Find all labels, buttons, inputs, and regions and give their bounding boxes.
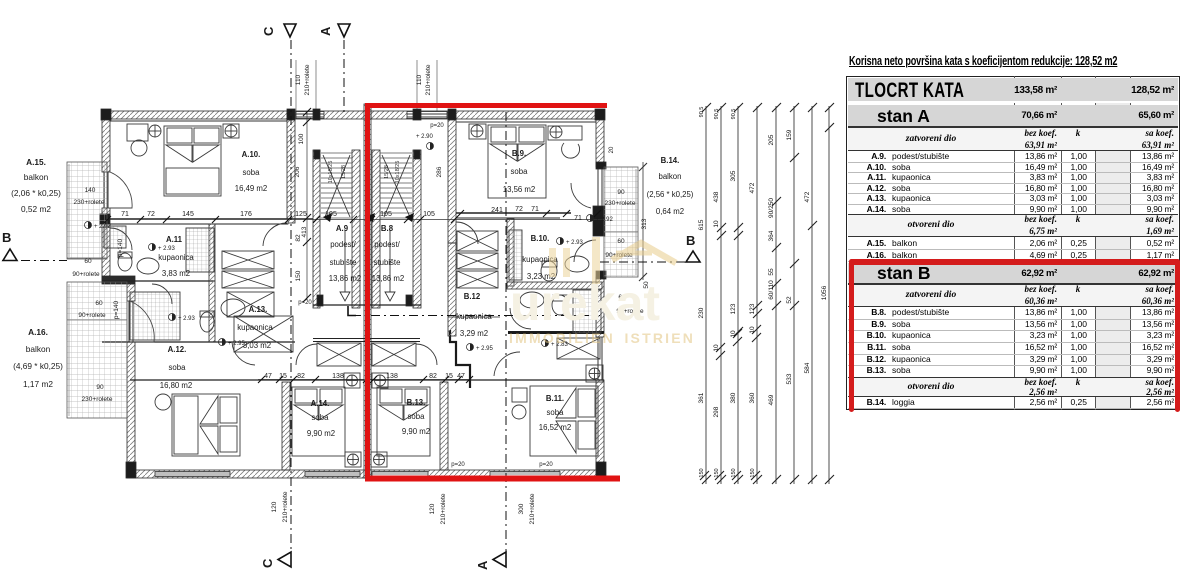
wardrobes A corridor stack bbox=[222, 251, 274, 317]
svg-text:(2,06 * k0,25): (2,06 * k0,25) bbox=[11, 188, 61, 198]
wall: stair A.9 right wall at party bbox=[352, 150, 360, 308]
dim line 8 bbox=[828, 106, 830, 484]
bottom wall window segments bbox=[155, 472, 560, 477]
room label A.14 bbox=[307, 399, 335, 438]
svg-text:71: 71 bbox=[531, 206, 539, 213]
door arc A.11 bbox=[110, 228, 132, 250]
svg-text:16,80 m2: 16,80 m2 bbox=[160, 381, 193, 390]
table header row otvoreni dio bbox=[848, 214, 1178, 237]
svg-text:71: 71 bbox=[574, 215, 582, 222]
room label A.9 bbox=[329, 224, 362, 283]
svg-text:A.10.: A.10. bbox=[242, 150, 261, 159]
svg-text:90: 90 bbox=[96, 384, 104, 391]
table row A.14. soba bbox=[848, 214, 1178, 215]
svg-text:13,86 m2: 13,86 m2 bbox=[372, 274, 405, 283]
stairs arrowheads bbox=[323, 213, 414, 222]
svg-text:B: B bbox=[686, 233, 695, 248]
svg-text:stubište: stubište bbox=[330, 258, 357, 267]
section marker A top bbox=[318, 24, 350, 37]
sink A.13 bbox=[221, 299, 245, 317]
lamp symbol B.9 left bbox=[471, 125, 483, 137]
sink B.12 bbox=[520, 292, 544, 308]
svg-text:110: 110 bbox=[416, 74, 423, 85]
svg-text:A: A bbox=[318, 26, 333, 36]
svg-text:82: 82 bbox=[297, 373, 305, 380]
wall: stair B.8 left wall at party bbox=[372, 150, 380, 308]
tile floor A.11 bbox=[104, 226, 126, 248]
svg-text:(4,69 * k0,25): (4,69 * k0,25) bbox=[13, 361, 63, 371]
corridor dim chain line bbox=[306, 112, 308, 300]
svg-text:90,5: 90,5 bbox=[714, 109, 720, 120]
dim numbers column (rotated) bbox=[698, 107, 828, 478]
wall: left exterior lower (A.12) bbox=[127, 284, 135, 301]
nightstand columns at bottom wall bbox=[345, 452, 361, 467]
svg-text:9,90 m2: 9,90 m2 bbox=[307, 429, 335, 438]
lamp A.10 left bbox=[131, 140, 147, 156]
red highlight box table stan B top bar bbox=[849, 259, 1180, 265]
wall: A.14 left wall bbox=[282, 382, 290, 470]
wall: right exterior lower bbox=[596, 277, 604, 337]
svg-text:soba: soba bbox=[243, 168, 261, 177]
wall: right exterior upper bbox=[596, 111, 604, 167]
table row B.13. soba bbox=[848, 377, 1178, 378]
wall: top exterior A side bbox=[102, 111, 293, 119]
svg-text:361: 361 bbox=[698, 392, 705, 403]
svg-text:+ 2.93: + 2.93 bbox=[158, 246, 176, 252]
svg-text:3,83 m2: 3,83 m2 bbox=[162, 269, 190, 278]
table row A.9. podest/stubište bbox=[848, 162, 1178, 163]
rotated dims stair numbers bbox=[328, 161, 401, 184]
wardrobes B corridor stack bbox=[457, 231, 498, 288]
svg-text:B.8: B.8 bbox=[381, 224, 394, 233]
svg-text:soba: soba bbox=[312, 413, 330, 422]
wall: B.10 left wall bbox=[507, 219, 514, 286]
red highlight box table stan B left bar bbox=[849, 259, 854, 412]
room label A.16 bbox=[13, 327, 63, 389]
table row A.10. soba bbox=[848, 172, 1178, 173]
wall: hall bottom wall A side bbox=[130, 379, 364, 381]
door arc B.12 bbox=[510, 308, 531, 329]
room label A.12 bbox=[160, 345, 193, 390]
nightstand B.9 right bbox=[548, 126, 582, 140]
lamp symbol A.10 bbox=[149, 125, 161, 137]
section line B left bbox=[2, 260, 67, 262]
svg-text:16,49 m2: 16,49 m2 bbox=[235, 184, 268, 193]
svg-text:+ 2.95: + 2.95 bbox=[228, 341, 246, 347]
svg-text:123: 123 bbox=[749, 303, 756, 314]
room label A.10 bbox=[235, 150, 268, 193]
dim line 1 bbox=[705, 106, 707, 484]
svg-text:urekat: urekat bbox=[510, 275, 660, 331]
rotated dims bottom window pairs bbox=[271, 491, 536, 524]
shower A.13 bbox=[130, 292, 180, 340]
wall: stairwell right wall bbox=[413, 150, 421, 308]
nightstand B.11 top right bbox=[586, 365, 603, 382]
svg-text:10: 10 bbox=[713, 344, 720, 352]
svg-text:150: 150 bbox=[714, 468, 720, 477]
svg-text:47: 47 bbox=[264, 373, 272, 380]
room label B.13 bbox=[402, 398, 430, 436]
lamp symbol B.9 right bbox=[550, 126, 562, 138]
table row stan A bbox=[848, 105, 1178, 127]
door arc A.12 entry bbox=[232, 342, 255, 365]
svg-text:p=140: p=140 bbox=[113, 300, 120, 319]
svg-text:210+rolete: 210+rolete bbox=[440, 493, 447, 524]
door arc corridor to B.10 bbox=[456, 222, 478, 244]
section line B middle jog bbox=[352, 315, 600, 317]
red plan left line bbox=[365, 104, 370, 481]
svg-text:+ 2.92: + 2.92 bbox=[94, 224, 112, 230]
svg-text:469: 469 bbox=[768, 394, 775, 405]
svg-text:balkon: balkon bbox=[24, 172, 49, 182]
sink A.11 bbox=[137, 258, 159, 274]
table header row otvoreni dio bbox=[848, 377, 1178, 397]
room label A.13 bbox=[237, 305, 273, 350]
svg-text:210+rolete: 210+rolete bbox=[282, 491, 289, 522]
svg-text:230+rolete: 230+rolete bbox=[605, 200, 636, 207]
svg-text:206: 206 bbox=[294, 166, 301, 177]
wall: top exterior stairwell bbox=[293, 111, 371, 119]
dim ticks middle bbox=[716, 123, 834, 360]
wardrobe hall B.11 bbox=[557, 338, 600, 359]
dimension ticks bottom rooms bbox=[258, 376, 473, 383]
svg-text:podest/: podest/ bbox=[330, 240, 356, 249]
svg-text:120: 120 bbox=[271, 501, 278, 512]
svg-text:(2,56 * k0,25): (2,56 * k0,25) bbox=[647, 190, 694, 199]
wardrobe hall B side bbox=[372, 343, 416, 366]
toilet B.10 bbox=[541, 261, 557, 281]
svg-text:10: 10 bbox=[730, 330, 737, 338]
svg-text:B.10.: B.10. bbox=[531, 234, 550, 243]
table column lines bbox=[1014, 76, 1015, 410]
table row A.13. kupaonica bbox=[848, 204, 1178, 205]
red plan top line bbox=[365, 103, 607, 108]
table row B.12. kupaonica bbox=[848, 365, 1178, 366]
svg-text:15/28: 15/28 bbox=[384, 165, 390, 179]
red highlight box table stan B right bar bbox=[1175, 259, 1180, 412]
door arc B.13 entry bbox=[416, 344, 437, 365]
wardrobe A.12 bbox=[234, 316, 293, 352]
svg-text:472: 472 bbox=[804, 191, 811, 202]
svg-text:15/28: 15/28 bbox=[341, 165, 347, 179]
column symbol B hall bbox=[372, 373, 388, 388]
svg-text:kupaonica: kupaonica bbox=[456, 312, 492, 321]
svg-text:90,5: 90,5 bbox=[699, 107, 705, 118]
wall: A.12 balcony door window bbox=[129, 301, 133, 342]
door arc A.10 balcony bbox=[110, 172, 132, 208]
bed A.12 bbox=[172, 394, 240, 456]
wall: balcony door window A.10 bbox=[104, 172, 108, 208]
wall: A.11/A.13 right wall bbox=[209, 224, 215, 342]
wall: top exterior B side bbox=[371, 111, 604, 119]
dimension row bottom rooms bbox=[264, 373, 465, 380]
svg-text:230+rolete: 230+rolete bbox=[74, 199, 105, 206]
red overlay on plan bbox=[365, 104, 620, 481]
toilet B.12 bbox=[552, 295, 568, 315]
wall: B.13 right wall bbox=[440, 382, 448, 470]
wall: B corridor stepped wall bbox=[450, 330, 470, 388]
svg-text:C: C bbox=[261, 26, 276, 36]
room label A.11 bbox=[158, 235, 194, 278]
svg-text:145: 145 bbox=[182, 211, 194, 218]
nightstand B.9 left bbox=[469, 124, 486, 139]
red plan bottom line bbox=[365, 476, 620, 482]
svg-text:soba: soba bbox=[511, 167, 529, 176]
svg-text:305: 305 bbox=[730, 170, 737, 181]
lamp symbol A.10 right bbox=[225, 125, 237, 137]
svg-text:60/110: 60/110 bbox=[768, 280, 775, 300]
svg-text:balkon: balkon bbox=[659, 172, 682, 181]
bed A.14 bbox=[292, 387, 345, 456]
tile floor B.10 bbox=[509, 230, 522, 280]
wall: B.10 bottom wall bbox=[507, 282, 602, 289]
wall: left exterior upper (A.10) bbox=[102, 111, 110, 172]
svg-text:soba: soba bbox=[169, 363, 187, 372]
svg-text:615: 615 bbox=[698, 219, 705, 230]
svg-text:313: 313 bbox=[641, 218, 648, 229]
svg-text:176: 176 bbox=[240, 211, 252, 218]
svg-text:0,52 m2: 0,52 m2 bbox=[21, 204, 51, 214]
svg-text:A.9: A.9 bbox=[336, 224, 349, 233]
svg-text:150: 150 bbox=[731, 468, 737, 477]
table row B.9. soba bbox=[848, 330, 1178, 331]
svg-text:+ 2.90: + 2.90 bbox=[416, 134, 434, 140]
table header row zatvoreni dio bbox=[848, 284, 1178, 307]
bed B.9 bbox=[488, 125, 546, 198]
svg-text:10: 10 bbox=[713, 220, 720, 228]
svg-text:16,52 m2: 16,52 m2 bbox=[539, 423, 572, 432]
section line A top segment bbox=[343, 40, 345, 112]
room label B.14 bbox=[647, 156, 694, 216]
rotated dims left shaft bbox=[113, 133, 650, 319]
wardrobe hall A side bbox=[317, 343, 361, 366]
nightstand A.10 right bbox=[223, 124, 239, 138]
svg-text:472: 472 bbox=[749, 182, 756, 193]
dim line 5 bbox=[775, 106, 777, 484]
dim line 6 bbox=[793, 106, 795, 484]
section marker C top bbox=[261, 24, 296, 37]
bed A.10 bbox=[164, 126, 221, 196]
wall: B.12 bottom wall bbox=[508, 331, 604, 334]
table row B.10. kupaonica bbox=[848, 342, 1178, 343]
table row A.11. kupaonica bbox=[848, 183, 1178, 184]
section line B right bbox=[600, 261, 692, 263]
svg-text:105: 105 bbox=[380, 211, 392, 218]
svg-text:90,5: 90,5 bbox=[731, 109, 737, 120]
labels in balcony A.16 bbox=[78, 300, 112, 403]
svg-text:100: 100 bbox=[298, 133, 305, 144]
rotated dims top window pairs bbox=[295, 64, 432, 95]
inner face lines of top wall bbox=[110, 120, 287, 122]
door arc A.12 balcony bbox=[130, 301, 154, 342]
svg-text:3,29 m2: 3,29 m2 bbox=[460, 329, 488, 338]
toilet A.13 bbox=[200, 311, 214, 332]
stairs B.8 flight treads bbox=[380, 153, 412, 218]
wall: corner blocks black bbox=[101, 109, 111, 120]
dimension column bbox=[698, 103, 834, 484]
svg-text:105: 105 bbox=[423, 211, 435, 218]
svg-text:1,17 m2: 1,17 m2 bbox=[23, 379, 53, 389]
svg-text:10x18/25: 10x18/25 bbox=[395, 161, 401, 184]
svg-text:3,03 m2: 3,03 m2 bbox=[243, 341, 271, 350]
balcony B.14 bbox=[604, 167, 638, 277]
dimension ticks row A bbox=[104, 210, 601, 223]
table row B.8. podest/stubište bbox=[848, 319, 1178, 320]
svg-text:72: 72 bbox=[147, 211, 155, 218]
section marker B right bbox=[686, 233, 700, 262]
wire: section line C vertical dash-dot bbox=[0, 0, 1, 1]
svg-text:+ 2.95: + 2.95 bbox=[476, 346, 494, 352]
stairs A.9 direction lines bbox=[323, 155, 350, 217]
svg-text:364: 364 bbox=[768, 230, 775, 241]
svg-text:kupaonica: kupaonica bbox=[237, 323, 273, 332]
section line A main bbox=[505, 112, 507, 565]
beam above hall wardrobes bbox=[313, 339, 420, 342]
svg-text:soba: soba bbox=[408, 412, 426, 421]
wall: A.10 right wall bbox=[287, 111, 295, 223]
svg-text:150: 150 bbox=[750, 468, 756, 477]
svg-text:B.14.: B.14. bbox=[661, 156, 680, 165]
svg-text:p=20: p=20 bbox=[451, 462, 465, 468]
wall: step joining left walls at y283 bbox=[102, 276, 135, 284]
svg-text:82: 82 bbox=[295, 234, 302, 242]
door arc B.9 entry bbox=[571, 183, 591, 208]
svg-text:60: 60 bbox=[84, 258, 92, 265]
svg-text:105: 105 bbox=[325, 211, 337, 218]
svg-text:60: 60 bbox=[95, 300, 103, 307]
wall: hall bottom wall B side bbox=[371, 379, 604, 381]
svg-text:230: 230 bbox=[698, 307, 705, 318]
wall: right window B.11 bbox=[598, 337, 602, 380]
table row A.12. soba bbox=[848, 193, 1178, 194]
wall: left exterior A.10 lower segment bbox=[102, 208, 110, 283]
door arc B.11 entry bbox=[494, 352, 520, 376]
dim ticks top bbox=[702, 103, 834, 112]
room label B.12 bbox=[456, 292, 492, 338]
svg-text:+ 2.93: + 2.93 bbox=[566, 240, 584, 246]
svg-text:A.13.: A.13. bbox=[249, 305, 268, 314]
svg-text:B.13.: B.13. bbox=[407, 398, 426, 407]
svg-text:205: 205 bbox=[768, 134, 775, 145]
svg-text:150: 150 bbox=[295, 270, 302, 281]
svg-text:150: 150 bbox=[699, 468, 705, 477]
p=20 labels bbox=[298, 123, 553, 468]
svg-text:52: 52 bbox=[786, 296, 793, 304]
svg-text:90/250: 90/250 bbox=[768, 198, 775, 218]
svg-text:B.12: B.12 bbox=[464, 292, 481, 301]
table row A.16. balkon bbox=[848, 261, 1178, 262]
svg-text:90: 90 bbox=[617, 189, 625, 196]
section marker B left bbox=[2, 230, 17, 261]
column symbol A hall bbox=[344, 373, 360, 388]
svg-text:kupaonica: kupaonica bbox=[158, 253, 194, 262]
shower A.11 bbox=[186, 228, 214, 272]
svg-text:0,64 m2: 0,64 m2 bbox=[656, 207, 684, 216]
wall: stairwell bottom bbox=[313, 304, 421, 306]
watermark bbox=[509, 237, 695, 346]
table row A.15. balkon bbox=[848, 249, 1178, 250]
wall: bottom exterior bbox=[127, 470, 604, 478]
svg-text:60: 60 bbox=[617, 238, 625, 245]
svg-text:125: 125 bbox=[295, 211, 307, 218]
svg-text:123: 123 bbox=[730, 303, 737, 314]
svg-text:10: 10 bbox=[749, 326, 756, 334]
svg-text:90+rolete: 90+rolete bbox=[72, 271, 100, 278]
svg-text:55: 55 bbox=[768, 268, 775, 276]
bed B.11 bbox=[530, 386, 598, 456]
svg-text:360: 360 bbox=[749, 392, 756, 403]
desk chair B.9 bbox=[562, 143, 580, 158]
chair A.12 bbox=[155, 394, 171, 410]
svg-text:10x18/25: 10x18/25 bbox=[328, 161, 334, 184]
stairs landing arrows down bbox=[340, 230, 395, 301]
svg-text:B: B bbox=[2, 230, 11, 245]
svg-text:210+rolete: 210+rolete bbox=[304, 64, 311, 95]
wall: A.13 bottom wall / hall bbox=[102, 341, 295, 343]
svg-text:A.14.: A.14. bbox=[311, 399, 330, 408]
section marker A bottom bbox=[475, 552, 506, 570]
wall: B.9 bottom wall bbox=[456, 212, 571, 214]
furniture bbox=[104, 124, 603, 467]
svg-text:A.12.: A.12. bbox=[168, 345, 187, 354]
svg-text:p=140: p=140 bbox=[117, 238, 124, 257]
chair B.11 bbox=[512, 405, 526, 419]
table frame bbox=[846, 76, 1180, 410]
svg-text:1056: 1056 bbox=[821, 285, 828, 300]
wall: A corridor wall under A.10 bbox=[102, 219, 288, 224]
svg-text:stubište: stubište bbox=[374, 258, 401, 267]
svg-text:241: 241 bbox=[491, 207, 503, 214]
svg-text:286: 286 bbox=[436, 166, 443, 177]
labels in balcony B.14 bbox=[605, 189, 644, 315]
svg-text:p=20: p=20 bbox=[298, 300, 312, 306]
shower B.12 bbox=[573, 290, 601, 333]
svg-text:300: 300 bbox=[518, 503, 525, 514]
labels in balcony A.15 bbox=[72, 187, 104, 278]
stairs B.8 direction lines bbox=[382, 155, 410, 217]
wall: B.9 left wall bbox=[448, 111, 456, 243]
watermark logo roof bbox=[612, 243, 676, 263]
svg-text:9,90 m2: 9,90 m2 bbox=[402, 427, 430, 436]
svg-text:p=20: p=20 bbox=[430, 123, 444, 129]
toilet A.11 bbox=[118, 252, 132, 271]
dim line 2 bbox=[720, 106, 722, 484]
stairs A.9 flight treads bbox=[321, 153, 352, 218]
door arc A.10 entry bbox=[263, 223, 287, 246]
svg-text:413: 413 bbox=[301, 226, 308, 237]
dim ticks bottom bbox=[700, 471, 834, 484]
room label B.11 bbox=[539, 394, 572, 432]
wall: stairwell left wall bbox=[313, 150, 320, 308]
svg-text:soba: soba bbox=[547, 408, 565, 417]
table row stan B bbox=[848, 263, 1178, 284]
svg-text:82: 82 bbox=[429, 373, 437, 380]
svg-text:13,56 m2: 13,56 m2 bbox=[503, 185, 536, 194]
svg-text:533: 533 bbox=[786, 373, 793, 384]
window lines in top walls (stairwell windows) bbox=[296, 112, 324, 119]
svg-text:13,86 m2: 13,86 m2 bbox=[329, 274, 362, 283]
svg-text:438: 438 bbox=[713, 191, 720, 202]
window dim extension lines top bbox=[295, 60, 297, 111]
room label B.8 bbox=[372, 224, 405, 283]
svg-text:A.11: A.11 bbox=[166, 235, 183, 244]
table row TLOCRT KATA bbox=[848, 78, 1178, 103]
svg-text:584: 584 bbox=[804, 362, 811, 373]
svg-text:380: 380 bbox=[730, 392, 737, 403]
svg-text:72: 72 bbox=[515, 206, 523, 213]
table row B.14. loggia bbox=[848, 408, 1178, 409]
door arc B.9 balcony bbox=[574, 240, 596, 262]
